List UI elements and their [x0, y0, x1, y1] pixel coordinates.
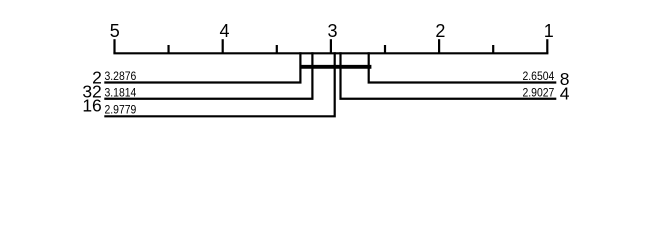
major tick 2	[438, 39, 440, 53]
svg-text:1: 1	[544, 21, 554, 41]
method 4 connector	[341, 52, 557, 99]
clique bar	[300, 65, 372, 69]
method 16 connector	[104, 52, 334, 116]
minor tick 4.5	[167, 45, 169, 53]
svg-text:2.6504: 2.6504	[523, 69, 555, 83]
major tick 5	[113, 39, 115, 53]
minor tick 1.5	[492, 45, 494, 53]
method 32 connector	[104, 52, 312, 99]
svg-text:2: 2	[435, 21, 445, 41]
svg-text:3.2876: 3.2876	[105, 69, 137, 83]
svg-text:16: 16	[82, 95, 101, 115]
method 2 connector	[104, 52, 300, 82]
svg-text:4: 4	[560, 83, 570, 103]
svg-text:2.9779: 2.9779	[105, 103, 137, 117]
minor tick 3.5	[276, 45, 278, 53]
axis line	[113, 52, 548, 54]
critical-difference diagram	[0, 0, 662, 133]
major tick 4	[222, 39, 224, 53]
method 8 connector	[369, 52, 557, 82]
svg-text:3: 3	[327, 21, 337, 41]
major tick 3	[330, 39, 332, 53]
major tick 1	[546, 39, 548, 53]
minor tick 2.5	[384, 45, 386, 53]
svg-text:3.1814: 3.1814	[105, 85, 137, 99]
svg-text:2.9027: 2.9027	[523, 85, 555, 99]
svg-text:5: 5	[110, 21, 120, 41]
svg-text:4: 4	[219, 21, 229, 41]
